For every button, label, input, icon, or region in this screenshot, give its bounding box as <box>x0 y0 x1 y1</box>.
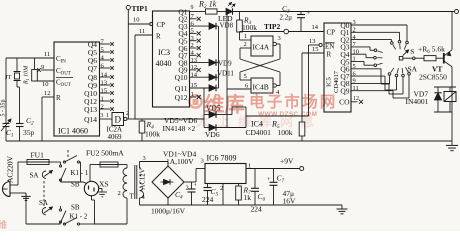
svg-text:4040: 4040 <box>156 59 172 68</box>
svg-text:12: 12 <box>353 96 359 102</box>
svg-text:R1 10M: R1 10M <box>24 65 31 85</box>
svg-text:2SC8550: 2SC8550 <box>419 73 447 82</box>
svg-text:CP: CP <box>327 29 336 37</box>
svg-text:SA: SA <box>30 172 39 180</box>
svg-text:12: 12 <box>44 90 51 97</box>
svg-text:TIP2: TIP2 <box>264 22 281 31</box>
svg-text:1: 1 <box>244 33 247 40</box>
svg-text:CD4017: CD4017 <box>333 70 340 93</box>
svg-text:Q9: Q9 <box>340 87 349 96</box>
svg-text:VD9: VD9 <box>218 60 232 68</box>
svg-text:K1 - 2: K1 - 2 <box>70 213 88 221</box>
svg-text:35p: 35p <box>23 128 35 137</box>
svg-text:+: + <box>307 10 311 17</box>
svg-text:Q13: Q13 <box>84 105 97 114</box>
svg-text:SA: SA <box>39 199 48 207</box>
svg-text:T: T <box>130 193 135 201</box>
svg-text:IC4A: IC4A <box>253 43 270 52</box>
svg-text:13: 13 <box>309 38 316 45</box>
svg-text:AC220V: AC220V <box>6 155 15 183</box>
svg-text:VD5: VD5 <box>206 104 221 113</box>
svg-text:1A,100V: 1A,100V <box>166 157 194 166</box>
svg-text:14: 14 <box>312 24 319 31</box>
svg-text:CO: CO <box>339 98 350 107</box>
svg-text:1: 1 <box>106 113 109 119</box>
svg-text:3: 3 <box>143 155 146 162</box>
svg-text:IC1 4060: IC1 4060 <box>58 127 88 136</box>
svg-text:224: 224 <box>251 205 263 214</box>
svg-text:1000μ/16V: 1000μ/16V <box>151 207 186 216</box>
svg-text:R: R <box>156 33 161 41</box>
svg-text:15: 15 <box>312 46 319 53</box>
svg-text:Q10: Q10 <box>175 73 188 82</box>
svg-text:IN4001: IN4001 <box>406 97 429 106</box>
svg-text:IC6 7809: IC6 7809 <box>207 154 237 163</box>
svg-text:5 - 35p: 5 - 35p <box>1 100 7 117</box>
svg-text:Q7: Q7 <box>88 64 97 73</box>
svg-text:100k: 100k <box>278 128 293 137</box>
svg-text:16V: 16V <box>283 197 297 206</box>
svg-text:D: D <box>114 115 121 125</box>
svg-text:1k: 1k <box>244 193 252 202</box>
svg-text:CP: CP <box>157 21 166 29</box>
svg-text:IC4B: IC4B <box>253 83 269 92</box>
svg-text:IC3: IC3 <box>158 48 170 57</box>
svg-text:11: 11 <box>139 28 145 35</box>
svg-text:AC12V: AC12V <box>139 168 146 189</box>
svg-text:S: S <box>410 47 414 56</box>
svg-text:2: 2 <box>118 190 121 197</box>
svg-text:SB: SB <box>71 181 80 189</box>
svg-text:IN4148 ×2: IN4148 ×2 <box>163 124 196 133</box>
svg-text:SA: SA <box>408 65 418 74</box>
svg-text:2: 2 <box>244 41 247 48</box>
svg-text:3: 3 <box>278 35 281 42</box>
svg-text:2.2μ: 2.2μ <box>280 14 293 22</box>
svg-text:4069: 4069 <box>108 133 123 141</box>
svg-text:EN: EN <box>325 43 334 51</box>
svg-text:XS: XS <box>99 180 109 189</box>
svg-text:SB: SB <box>71 204 80 212</box>
svg-text:Q14: Q14 <box>84 115 97 124</box>
svg-text:2: 2 <box>186 185 189 192</box>
svg-text:R: R <box>327 51 332 59</box>
svg-text:5: 5 <box>244 73 247 80</box>
svg-text:3: 3 <box>100 113 103 119</box>
svg-text:IC5: IC5 <box>326 77 333 87</box>
svg-text:R: R <box>56 94 61 102</box>
svg-text:K1 - 1: K1 - 1 <box>71 169 89 177</box>
svg-text:FU2 500mA: FU2 500mA <box>86 149 124 158</box>
svg-text:100k: 100k <box>242 23 257 32</box>
svg-text:100k: 100k <box>145 130 160 139</box>
svg-text:3: 3 <box>201 158 204 165</box>
svg-text:Q11: Q11 <box>175 84 188 93</box>
svg-text:10: 10 <box>133 17 140 24</box>
svg-text:TIP1: TIP1 <box>132 4 149 13</box>
svg-text:9: 9 <box>191 5 194 11</box>
svg-text:11: 11 <box>44 51 50 58</box>
svg-text:VD11: VD11 <box>217 70 234 78</box>
svg-text:10: 10 <box>42 81 49 88</box>
svg-text:Q12: Q12 <box>175 93 188 102</box>
svg-text:+9V: +9V <box>280 157 294 166</box>
svg-text:JT: JT <box>5 74 12 81</box>
svg-text:CD4001: CD4001 <box>246 128 272 137</box>
svg-text:FU1: FU1 <box>31 151 45 160</box>
svg-text:224: 224 <box>202 195 214 204</box>
svg-text:VD6: VD6 <box>205 130 220 139</box>
svg-text:维: 维 <box>0 219 7 230</box>
